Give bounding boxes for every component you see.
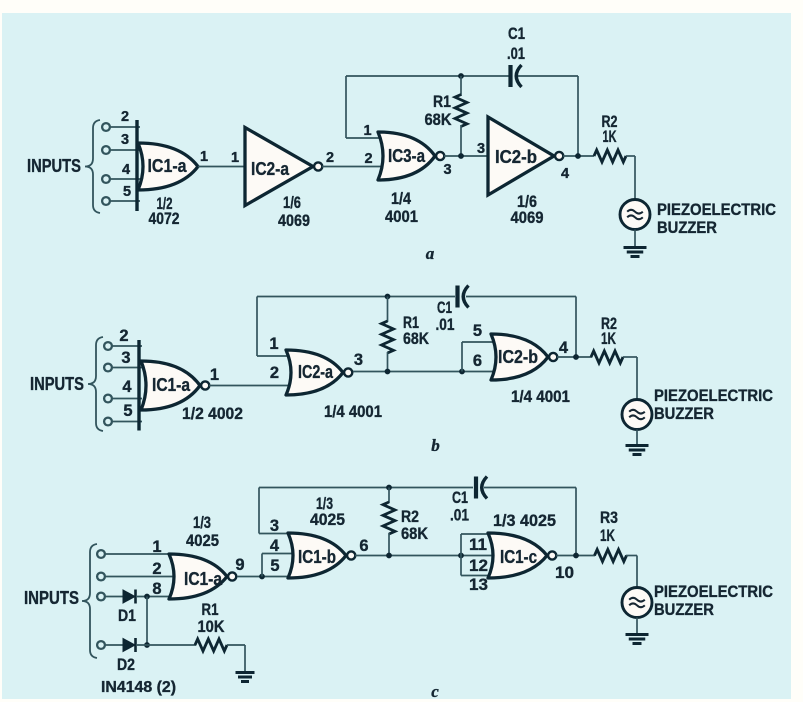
pin label 8 (IC1-a C) <box>152 580 161 598</box>
label IC2-a <box>251 159 290 179</box>
pin label 1 (IC2-a in) <box>231 150 239 166</box>
pin label 3 (IC1-b C) <box>270 517 279 535</box>
svg-text:1: 1 <box>363 123 371 139</box>
wire: branch to pin4 (C) <box>262 554 295 577</box>
ground (A) <box>624 248 647 257</box>
or-gate IC1-a (1/2 4072) <box>138 143 198 190</box>
svg-text:INPUTS: INPUTS <box>24 588 79 608</box>
svg-text:3: 3 <box>121 349 130 367</box>
diode D1 <box>123 590 176 604</box>
nor-gate IC1-a (1/3 4025) <box>169 554 236 599</box>
wire: IC1-a B out to IC2-a pin2 <box>209 385 292 387</box>
svg-text:IC2-a: IC2-a <box>251 159 290 179</box>
pin label 12 (IC1-c) <box>469 557 488 575</box>
svg-text:D2: D2 <box>117 655 135 674</box>
section A: input brace <box>85 120 100 213</box>
svg-text:2: 2 <box>152 560 161 578</box>
label IC2-b (B) <box>498 347 538 367</box>
svg-text:68K: 68K <box>403 329 430 348</box>
pin label 10 (IC1-c out) <box>555 564 574 582</box>
pin labels 2 3 4 5 (IC1-a B inputs) <box>119 327 132 420</box>
svg-text:3: 3 <box>443 162 451 178</box>
svg-text:3: 3 <box>270 517 279 535</box>
junction: pin5 branch (B) <box>459 369 465 375</box>
pin label 1 (IC1-a out) <box>200 149 208 165</box>
pin label 4 (IC2-b out) <box>561 166 569 182</box>
svg-text:1: 1 <box>231 150 239 166</box>
junction: output node (C) <box>573 553 579 559</box>
wire: IC2-a out to IC3-a pin2 <box>322 166 384 168</box>
wire: feedback right vertical (B) <box>575 297 577 358</box>
svg-text:4069: 4069 <box>278 211 310 230</box>
nor-gate IC1-b (1/3 4025) <box>288 533 355 578</box>
svg-text:10K: 10K <box>198 617 226 636</box>
svg-text:4: 4 <box>270 537 280 555</box>
junction: IC1-c input branch <box>458 553 464 559</box>
label D2 <box>117 655 135 674</box>
label 1/2 4002 <box>182 404 243 423</box>
svg-text:IC2-a: IC2-a <box>298 362 334 382</box>
svg-text:IC1-a: IC1-a <box>184 569 223 589</box>
svg-text:13: 13 <box>469 576 488 594</box>
svg-text:2: 2 <box>364 151 372 167</box>
pin label 11 (IC1-c) <box>469 536 487 554</box>
label C1 .01 (A) <box>507 24 525 63</box>
ground (B) <box>626 446 649 455</box>
resistor R1 10K (C) <box>195 639 245 651</box>
svg-text:4: 4 <box>122 378 132 396</box>
pin label 6 (IC2-b B) <box>473 352 482 370</box>
pin label 1 (IC1-a C) <box>152 538 161 556</box>
wire: R1 to ground (C) <box>244 645 246 672</box>
pin label 3 (IC2-a B out) <box>354 351 363 369</box>
node: input terminal A3 (pin 4) <box>102 175 140 183</box>
pin label 2 (IC1-a C) <box>152 560 161 578</box>
svg-text:4: 4 <box>559 339 569 357</box>
capacitor C1 (C) <box>476 477 487 499</box>
resistor R2 1K (B) <box>591 351 637 363</box>
nor-gate IC2-a (1/4 4001) <box>286 350 352 395</box>
node: input terminal B3 (pin 4) <box>104 395 142 403</box>
svg-text:5: 5 <box>123 402 132 420</box>
label D1 <box>118 606 136 625</box>
pin label 4 (IC2-b B out) <box>559 339 569 357</box>
svg-text:68K: 68K <box>425 110 453 129</box>
wire: IC1-c out to R3 <box>556 555 595 557</box>
label IC2-b <box>495 147 537 167</box>
section C: INPUTS label <box>24 588 79 608</box>
svg-text:c: c <box>431 682 439 701</box>
resistor R2 1K (A) <box>594 150 635 162</box>
junction: output node (A) <box>575 153 581 159</box>
nor-gate IC1-a (1/2 4002) <box>141 361 209 410</box>
wire: buzzer to ground (B) <box>636 430 638 446</box>
wire: down to buzzer (B) <box>636 357 638 400</box>
svg-text:PIEZOELECTRIC: PIEZOELECTRIC <box>654 386 773 405</box>
wire: top rail C <box>259 487 576 489</box>
svg-text:11: 11 <box>469 536 487 554</box>
label IC1-c (C) <box>500 547 537 567</box>
label R1 68K (B) <box>403 313 430 348</box>
node: input terminal C4 (D2) <box>97 641 123 649</box>
section B: input brace <box>88 337 103 431</box>
wire: diode junction vertical <box>146 597 148 646</box>
svg-text:IC2-b: IC2-b <box>495 147 537 167</box>
junction: R1 bottom (B) <box>385 369 391 375</box>
svg-text:2: 2 <box>270 364 279 382</box>
svg-text:PIEZOELECTRIC: PIEZOELECTRIC <box>657 200 776 219</box>
svg-text:1/4 4001: 1/4 4001 <box>511 387 570 406</box>
wire: branch to pin5 (B) <box>462 342 497 372</box>
label R1 68K (A) <box>425 92 453 129</box>
label R2 68K (C) <box>401 507 429 543</box>
svg-text:2: 2 <box>326 150 334 166</box>
node: input terminal B4 (pin 5) <box>104 418 142 426</box>
nor-gate IC1-c (1/3 4025) <box>488 533 556 578</box>
ground (R1 C) <box>236 673 255 682</box>
pin label 1 (IC1-a B out) <box>210 366 219 384</box>
inverter IC2-a (1/6 4069) <box>245 128 322 206</box>
wire: top rail A <box>346 75 578 77</box>
label a (sub-circuit) <box>426 244 435 263</box>
pin label 2 (IC2-a out) <box>326 150 334 166</box>
wire: IC2-a out to IC2-b pin6 (B) <box>353 371 497 373</box>
svg-text:4: 4 <box>561 166 569 182</box>
pin label 2 (IC2-a B in) <box>270 364 279 382</box>
piezoelectric buzzer (B) <box>622 400 652 430</box>
label 1/2 4072 <box>149 194 180 228</box>
wire: IC2-b out to R2 <box>563 155 594 157</box>
svg-text:IN4148 (2): IN4148 (2) <box>101 679 176 696</box>
label 1/3 4025 (IC1-a C) <box>186 513 219 550</box>
label b (sub-circuit) <box>431 436 440 455</box>
wire: IC1-a C out to junction <box>237 576 294 578</box>
svg-text:INPUTS: INPUTS <box>27 156 81 176</box>
node: input terminal B2 (pin 3) <box>104 364 142 372</box>
resistor R3 1K (C) <box>595 550 638 562</box>
wire: feedback left + IC2-a pin1 (B) <box>257 297 292 357</box>
svg-text:8: 8 <box>152 580 161 598</box>
node: input terminal B1 (pin 2) <box>104 342 142 350</box>
svg-text:R3: R3 <box>600 508 618 527</box>
ground (C) <box>626 635 649 644</box>
svg-text:6: 6 <box>473 352 482 370</box>
svg-text:2: 2 <box>121 109 129 125</box>
pin label 1 (IC2-a B in) <box>269 335 278 353</box>
svg-text:3: 3 <box>121 132 129 148</box>
svg-text:3: 3 <box>477 141 485 157</box>
wire: feedback left + IC1-b pin3 (C) <box>259 488 292 534</box>
svg-text:IC1-c: IC1-c <box>500 547 537 567</box>
svg-text:.01: .01 <box>436 315 455 334</box>
svg-text:1/3 4025: 1/3 4025 <box>493 511 556 530</box>
svg-text:4: 4 <box>122 162 130 178</box>
label PIEZOELECTRIC BUZZER (B) <box>654 386 773 423</box>
pin label 1 (IC3-a in) <box>363 123 371 139</box>
wire: down to buzzer (A) <box>634 156 636 200</box>
svg-text:D1: D1 <box>118 606 136 625</box>
label IN4148 (2) <box>101 679 176 696</box>
svg-text:BUZZER: BUZZER <box>654 600 714 619</box>
piezoelectric buzzer (A) <box>620 200 650 230</box>
label R2 1K (A) <box>602 112 618 146</box>
svg-text:1K: 1K <box>600 526 615 545</box>
svg-text:C1: C1 <box>452 488 468 507</box>
label IC1-a <box>148 156 188 176</box>
wire: IC1-a input bar <box>135 120 138 211</box>
wire: IC1-b out to IC1-c pin12 <box>355 555 494 557</box>
capacitor C1 (B) <box>458 286 469 308</box>
svg-text:PIEZOELECTRIC: PIEZOELECTRIC <box>654 582 773 601</box>
section B: INPUTS label <box>30 374 84 394</box>
wire: buzzer to ground (C) <box>636 618 638 635</box>
node: input terminal A4 (pin 5) <box>102 197 140 205</box>
junction: R1 bottom (A) <box>458 153 464 159</box>
svg-text:1: 1 <box>200 149 208 165</box>
svg-text:IC1-b: IC1-b <box>298 547 336 567</box>
label PIEZOELECTRIC BUZZER (A) <box>657 200 776 237</box>
label c (sub-circuit) <box>431 682 439 701</box>
svg-text:6: 6 <box>359 537 368 555</box>
wire: feedback right vertical (C) <box>575 488 577 556</box>
nor-gate IC3-a (1/4 4001) <box>378 132 444 180</box>
pin label 13 (IC1-c) <box>469 576 488 594</box>
label 1/6 4069 <box>278 193 310 230</box>
junction: D2 node <box>144 642 150 648</box>
junction: rail/R1 (A) <box>458 73 464 79</box>
svg-text:IC2-b: IC2-b <box>498 347 538 367</box>
svg-text:C1: C1 <box>508 24 525 43</box>
junction: D1 node <box>144 594 150 600</box>
label 1/4 4001 (B) <box>324 402 382 421</box>
pin label 5 (IC2-b B) <box>473 322 482 340</box>
pin label 9 (IC1-a C out) <box>235 556 244 574</box>
pin label 5 (IC1-b C) <box>270 557 279 575</box>
svg-text:1/3: 1/3 <box>193 513 211 532</box>
svg-text:68K: 68K <box>401 524 429 543</box>
svg-text:4025: 4025 <box>310 510 345 529</box>
node: input terminal A2 (pin 3) <box>102 146 140 154</box>
resistor R1 68K (B) <box>382 297 394 372</box>
section C: input brace <box>82 544 97 658</box>
svg-text:1: 1 <box>152 538 161 556</box>
pin label 4 (IC1-b C) <box>270 537 280 555</box>
svg-text:1/4 4001: 1/4 4001 <box>324 402 382 421</box>
svg-text:1/2 4002: 1/2 4002 <box>182 404 243 423</box>
label 1/3 4025 (IC1-c) <box>493 511 556 530</box>
pin label 6 (IC1-b C out) <box>359 537 368 555</box>
label IC1-a (C) <box>184 569 223 589</box>
wire: feedback down-left + IC3-a pin1 <box>346 76 384 138</box>
svg-text:b: b <box>431 436 440 455</box>
junction: output node (B) <box>573 354 579 360</box>
wire: down to buzzer (C) <box>636 556 638 589</box>
svg-text:1/6: 1/6 <box>283 193 301 212</box>
pin label 2 (IC3-a in) <box>364 151 372 167</box>
svg-text:.01: .01 <box>450 506 469 525</box>
svg-text:2: 2 <box>119 327 128 345</box>
label R1 10K (C) <box>198 600 226 636</box>
svg-text:5: 5 <box>123 184 131 200</box>
node: input terminal C1 (pin 1) <box>97 550 176 558</box>
node: input terminal A1 (pin 2) <box>102 123 140 131</box>
label IC3-a <box>388 146 426 166</box>
svg-text:1K: 1K <box>603 127 617 146</box>
label 1/4 4001 (IC2-b B) <box>511 387 570 406</box>
label PIEZOELECTRIC BUZZER (C) <box>654 582 773 619</box>
svg-text:BUZZER: BUZZER <box>657 218 717 237</box>
svg-text:5: 5 <box>270 557 279 575</box>
wire: feedback right vertical (A) <box>577 76 579 156</box>
label IC2-a (B) <box>298 362 334 382</box>
svg-text:12: 12 <box>469 557 488 575</box>
svg-text:1: 1 <box>210 366 219 384</box>
label IC1-a (B) <box>152 375 191 395</box>
label C1 .01 (B) <box>436 298 455 334</box>
wire: IC3-a out to IC2-b in <box>444 155 488 157</box>
pin label 3 (IC3-a out) <box>443 162 451 178</box>
junction: pin4 branch (C) <box>259 574 265 580</box>
label R2 1K (B) <box>601 314 617 348</box>
label IC1-b (C) <box>298 547 336 567</box>
svg-text:IC3-a: IC3-a <box>388 146 426 166</box>
capacitor C1 (A) <box>511 65 522 87</box>
svg-text:4072: 4072 <box>149 209 180 228</box>
svg-text:1K: 1K <box>601 329 616 348</box>
diode D2 <box>123 638 196 652</box>
inverter IC2-b (1/6 4069) <box>488 117 563 195</box>
label 1/4 4001 (A) <box>385 189 418 226</box>
svg-text:4025: 4025 <box>186 531 219 550</box>
label 1/6 4069 (IC2-b) <box>511 192 544 227</box>
resistor R2 68K (C) <box>383 488 395 556</box>
pin labels 2 3 4 5 (IC1-a inputs) <box>121 109 131 200</box>
svg-text:a: a <box>426 244 435 263</box>
wire: buzzer to ground (A) <box>634 230 636 248</box>
wire: IC2-b out to R2 (B) <box>557 356 592 358</box>
svg-text:1: 1 <box>269 335 278 353</box>
junction: rail/R2 (C) <box>386 485 392 491</box>
junction: rail/R1 (B) <box>385 294 391 300</box>
node: input terminal C2 (pin 2) <box>97 573 178 581</box>
svg-text:4069: 4069 <box>511 208 544 227</box>
svg-text:BUZZER: BUZZER <box>654 404 714 423</box>
svg-text:INPUTS: INPUTS <box>30 374 84 394</box>
resistor R1 68K (A) <box>455 76 467 156</box>
svg-text:IC1-a: IC1-a <box>152 375 191 395</box>
section A: INPUTS label <box>27 156 81 176</box>
label 1/3 4025 (IC1-b) <box>310 494 345 529</box>
svg-text:4001: 4001 <box>385 207 418 226</box>
label C1 .01 (C) <box>450 488 469 525</box>
wire: top rail B <box>257 296 576 298</box>
node: input terminal C3 (D1) <box>97 593 123 601</box>
svg-text:3: 3 <box>354 351 363 369</box>
wire: branch to pins 11 13 <box>461 534 494 576</box>
pin label 3 (IC2-b in) <box>477 141 485 157</box>
wire: IC1-a B input bar <box>137 340 140 431</box>
junction: R2 bottom (C) <box>386 553 392 559</box>
svg-text:.01: .01 <box>507 44 525 63</box>
svg-text:9: 9 <box>235 556 244 574</box>
svg-text:1/4: 1/4 <box>391 189 411 208</box>
svg-text:R1: R1 <box>433 92 451 111</box>
svg-text:10: 10 <box>555 564 574 582</box>
label R3 1K (C) <box>600 508 618 545</box>
wire: IC1-a out to IC2-a in <box>198 166 246 168</box>
piezoelectric buzzer (C) <box>622 588 652 618</box>
svg-text:IC1-a: IC1-a <box>148 156 188 176</box>
svg-text:5: 5 <box>473 322 482 340</box>
nor-gate IC2-b (1/4 4001) <box>491 334 557 380</box>
